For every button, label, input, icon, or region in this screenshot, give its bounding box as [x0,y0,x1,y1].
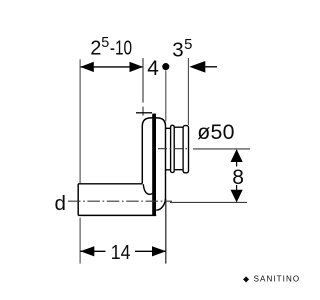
extension line left (x=80) [79,59,81,263]
svg-text:8: 8 [232,166,244,189]
svg-text:◆ SANITINO: ◆ SANITINO [243,275,300,284]
body wall-plate bar (thick) [152,114,156,216]
svg-text:4: 4 [147,57,159,80]
svg-text:5: 5 [184,37,192,53]
dot terminator [162,63,169,70]
svg-text:5: 5 [101,35,109,51]
8-dim lower extension [170,201,247,203]
arrow 3.5 pointing left [189,61,217,73]
socket centerline (dash-dot) [158,149,250,203]
outlet barrel [174,127,183,170]
outlet step [166,128,171,170]
outlet lip ring 2 [183,126,188,173]
svg-text:14: 14 [111,242,131,264]
svg-text:3: 3 [172,39,183,62]
dimension line 2.5-10 [80,62,143,72]
outlet lip ring 1 [171,125,175,172]
trap body cover outline [142,118,165,210]
dimension line 14 [80,246,166,256]
pipe [78,184,156,216]
extension line for 3.5 (x=188.4) [187,58,189,125]
inner cup U-arc [143,184,155,194]
svg-text:d: d [55,192,66,215]
extension / centerline at x=143 [142,58,144,116]
8-dim upper extension [193,148,250,150]
extension line under dot (x=165.8) [165,70,167,121]
pipe centerline [68,200,172,202]
svg-text:-10: -10 [110,38,132,60]
svg-text:ø50: ø50 [197,120,235,144]
svg-text:2: 2 [90,38,101,60]
body wall-plate tick [136,112,152,114]
dimension 8 arrows [231,149,243,202]
